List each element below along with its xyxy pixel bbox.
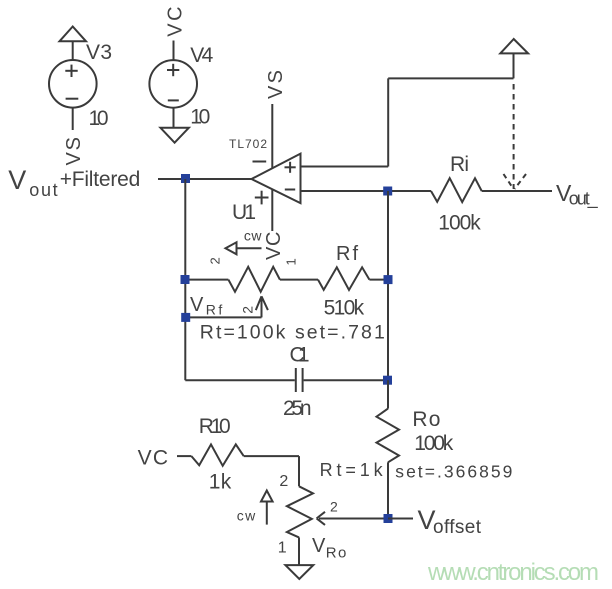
svg-text:out_: out_ bbox=[569, 189, 599, 210]
wire Rf row right lead bbox=[369, 279, 388, 281]
wire Ri to Vout_ bbox=[482, 190, 552, 192]
resistor Ri bbox=[431, 178, 482, 202]
voltage source V3 bbox=[49, 60, 97, 108]
label cw bbox=[244, 228, 262, 244]
net label Vout_ bbox=[556, 180, 599, 210]
svg-text:cw: cw bbox=[244, 228, 262, 244]
dashed probe line bbox=[513, 84, 515, 189]
wire top horizontal to arrow bbox=[388, 77, 513, 79]
net label VS below V3 bbox=[63, 137, 85, 166]
annotation Rt=1k bbox=[320, 460, 384, 480]
wire V3 bottom stem bbox=[72, 107, 74, 130]
part number TL702 bbox=[229, 137, 267, 151]
pin 1 label bottom of pot bbox=[278, 540, 287, 557]
svg-text:100k: 100k bbox=[414, 432, 454, 455]
wire V3 top stem bbox=[72, 41, 74, 60]
net label VRo bbox=[312, 535, 346, 562]
svg-text:2: 2 bbox=[279, 473, 288, 490]
wire rail C1 to Ro bbox=[387, 380, 389, 408]
value 10 of V4 bbox=[190, 106, 210, 129]
wire Rf row left lead bbox=[185, 279, 228, 281]
wire pot to ground bbox=[298, 537, 300, 565]
dashed probe arrowhead bbox=[504, 174, 527, 189]
annotation Rt=100k set=.781 bbox=[200, 322, 385, 344]
watermark www.cntronics.com bbox=[427, 559, 599, 586]
value 100k of Ro bbox=[414, 432, 454, 455]
power symbol down arrow below V4 bbox=[160, 128, 189, 143]
svg-text:V: V bbox=[190, 294, 204, 316]
net label VC at R10 bbox=[138, 447, 168, 470]
net label VRf bbox=[190, 294, 222, 318]
svg-text:offset: offset bbox=[433, 517, 482, 538]
value 1k of R10 bbox=[209, 471, 232, 494]
resistor Rf bbox=[318, 267, 369, 290]
svg-text:1: 1 bbox=[283, 258, 298, 265]
junction node output / left rail bbox=[181, 174, 190, 183]
wire left rail bbox=[184, 179, 186, 380]
svg-text:TL702: TL702 bbox=[229, 137, 267, 151]
svg-text:V4: V4 bbox=[190, 44, 213, 67]
wire wiper to left rail bbox=[185, 316, 261, 318]
svg-text:25n: 25n bbox=[283, 397, 312, 420]
svg-text:www.cntronics.com: www.cntronics.com bbox=[427, 559, 599, 586]
junction node C1 right rail bbox=[383, 376, 392, 385]
wire VC lead bbox=[177, 455, 191, 457]
net label Vout+Filtered bbox=[8, 165, 140, 200]
svg-text:C1: C1 bbox=[290, 344, 310, 367]
ground symbol bbox=[285, 565, 313, 579]
junction node minus input / right rail bbox=[383, 187, 392, 196]
resistor R10 bbox=[191, 444, 243, 465]
svg-text:out: out bbox=[29, 180, 58, 200]
junction node Voffset bbox=[384, 514, 393, 523]
wire R10 to pot corner bbox=[244, 455, 299, 457]
wire Rf row middle lead bbox=[280, 279, 318, 281]
svg-text:510k: 510k bbox=[324, 297, 365, 320]
value 10 of V3 bbox=[89, 107, 109, 130]
svg-text:VC: VC bbox=[138, 447, 168, 470]
pin 2 label of wiper bbox=[240, 306, 256, 314]
capacitor C1 bbox=[296, 368, 303, 392]
label cw bottom bbox=[237, 508, 256, 524]
value 25n of C1 bbox=[283, 397, 312, 420]
label V4 bbox=[190, 44, 213, 67]
label V3 bbox=[86, 41, 112, 64]
svg-text:cw: cw bbox=[237, 508, 256, 524]
label Ro bbox=[412, 408, 440, 431]
designator U1 bbox=[232, 201, 256, 224]
wire plus input riser bbox=[387, 78, 389, 166]
svg-text:1: 1 bbox=[278, 540, 287, 557]
junction node VRf bbox=[181, 313, 190, 322]
op-amp U1 TL702 bbox=[252, 154, 301, 205]
wire op-amp output to Vout+Filtered bbox=[158, 178, 252, 180]
svg-text:100k: 100k bbox=[438, 212, 481, 235]
net label Voffset bbox=[418, 505, 482, 538]
svg-text:Ro: Ro bbox=[412, 408, 440, 431]
svg-text:set=.366859: set=.366859 bbox=[395, 461, 512, 481]
svg-text:Rt=100k set=.781: Rt=100k set=.781 bbox=[200, 322, 385, 344]
net label VS above op-amp bbox=[265, 70, 287, 99]
svg-text:U1: U1 bbox=[232, 201, 256, 224]
power symbol VS arrow above V3 bbox=[60, 27, 87, 42]
svg-text:1k: 1k bbox=[209, 471, 232, 494]
label Ri bbox=[450, 153, 469, 176]
pin 2 label top of pot bbox=[279, 473, 288, 490]
label C1 bbox=[290, 344, 310, 367]
svg-text:Rt=1k: Rt=1k bbox=[320, 460, 384, 480]
wire Ro to Voffset node bbox=[387, 462, 389, 518]
svg-text:2: 2 bbox=[240, 306, 256, 314]
net label VC above V4 bbox=[164, 6, 186, 36]
wire C1 row right lead bbox=[304, 379, 388, 381]
label Rf bbox=[336, 243, 358, 265]
power symbol arrow top right bbox=[500, 39, 528, 53]
svg-text:V: V bbox=[8, 165, 26, 195]
svg-text:V3: V3 bbox=[86, 41, 112, 64]
pin 2 label of bottom wiper bbox=[330, 499, 338, 515]
voltage source V4 bbox=[149, 60, 197, 108]
junction node Rf row right bbox=[384, 275, 393, 284]
svg-text:VS: VS bbox=[265, 70, 287, 99]
cw arrow of potentiometer bbox=[226, 242, 262, 254]
resistor Ro bbox=[377, 409, 400, 463]
wire right rail bbox=[387, 191, 389, 380]
svg-text:2: 2 bbox=[208, 257, 223, 264]
wire arrow stem bbox=[513, 53, 515, 78]
wiper arrow of bottom pot bbox=[317, 512, 388, 525]
svg-text:VC: VC bbox=[263, 232, 285, 261]
svg-text:V: V bbox=[312, 535, 326, 557]
value 510k of Rf bbox=[324, 297, 365, 320]
svg-text:+Filtered: +Filtered bbox=[60, 168, 141, 191]
wire Voffset lead bbox=[388, 518, 413, 520]
svg-text:Ro: Ro bbox=[326, 545, 347, 562]
svg-text:Ri: Ri bbox=[450, 153, 469, 176]
wire C1 row left lead bbox=[185, 379, 294, 381]
svg-text:R10: R10 bbox=[199, 415, 231, 438]
junction node Rf row left bbox=[181, 275, 190, 284]
pin 2 label of potentiometer bbox=[208, 257, 223, 264]
annotation set=.366859 bbox=[395, 461, 512, 481]
label R10 bbox=[199, 415, 231, 438]
potentiometer Rt=1k element bbox=[287, 486, 313, 537]
svg-text:Rf: Rf bbox=[206, 302, 223, 318]
svg-text:VS: VS bbox=[63, 137, 85, 166]
svg-text:10: 10 bbox=[89, 107, 109, 130]
cw arrow of bottom pot bbox=[261, 491, 273, 525]
wire corner down to pot bbox=[298, 456, 300, 486]
svg-text:Rf: Rf bbox=[336, 243, 358, 265]
value 100k of Ri bbox=[438, 212, 481, 235]
wire op-amp supply rail VS to VC bbox=[271, 104, 273, 231]
wire op-amp minus input to Ri bbox=[301, 190, 432, 192]
svg-text:VC: VC bbox=[164, 6, 186, 36]
wiper arrow of potentiometer bbox=[256, 296, 268, 317]
potentiometer Rt=100k element bbox=[228, 267, 280, 292]
pin 1 label of potentiometer bbox=[283, 258, 298, 265]
wire V4 bottom stem bbox=[173, 108, 175, 128]
wire op-amp plus input bbox=[301, 166, 389, 168]
svg-text:2: 2 bbox=[330, 499, 338, 515]
net label VC below op-amp bbox=[263, 232, 285, 261]
wire V4 top stem bbox=[173, 41, 175, 61]
svg-text:10: 10 bbox=[190, 106, 210, 129]
